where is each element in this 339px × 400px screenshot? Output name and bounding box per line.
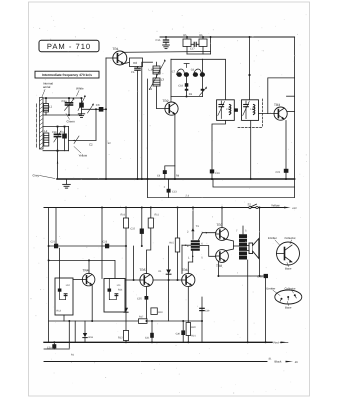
wire TR3 collector top stub	[287, 95, 295, 97]
svg-text:C18: C18	[178, 85, 183, 88]
wire TR4 collector	[88, 260, 90, 273]
svg-text:C21: C21	[51, 241, 56, 244]
svg-text:-9V: -9V	[294, 361, 298, 364]
svg-text:Base: Base	[285, 306, 292, 310]
output transformer T2	[236, 226, 248, 260]
diode D1	[158, 246, 171, 321]
wire TR1 emitter to R2	[124, 62, 130, 63]
wire TR3 emitter with capacitor C20	[276, 121, 289, 180]
IFT2 winding B	[242, 100, 259, 121]
switch S1 label Black arrow	[269, 357, 299, 364]
rail B1	[44, 341, 272, 343]
transistor TR8	[216, 250, 229, 268]
trimmer C4a	[78, 95, 86, 111]
svg-text:Yellow: Yellow	[271, 204, 280, 208]
capacitor C17	[190, 42, 199, 50]
wire box1 bottom	[63, 315, 65, 321]
svg-text:R11: R11	[155, 214, 160, 217]
wire emitter drop left	[74, 321, 76, 342]
junction between IFT2 windings	[235, 108, 238, 111]
svg-text:+9V: +9V	[292, 207, 297, 210]
svg-text:C2: C2	[89, 142, 93, 146]
svg-text:C25: C25	[137, 298, 142, 301]
svg-text:Base: Base	[285, 267, 292, 271]
wire TR3 bias from rail	[268, 78, 295, 114]
capacitor C18 centre tap	[178, 77, 188, 97]
svg-text:R19: R19	[158, 311, 163, 314]
electrolytic C22	[130, 208, 143, 247]
svg-text:C4: C4	[62, 131, 66, 134]
trimmer C4b	[62, 127, 67, 151]
rail B2	[44, 361, 267, 363]
resistor R15 on feedback line	[139, 316, 148, 324]
svg-text:Intermediate frequency 470 kc/: Intermediate frequency 470 kc/s	[42, 73, 92, 77]
svg-text:C30: C30	[176, 333, 181, 336]
svg-text:R20: R20	[191, 326, 196, 329]
svg-text:TR8: TR8	[216, 264, 222, 268]
wire AGC tap to bus	[141, 62, 143, 179]
svg-text:L10: L10	[66, 284, 71, 287]
wire AVC line down	[147, 79, 149, 198]
electrolytic C23	[103, 241, 110, 249]
transistor TR4	[82, 269, 95, 286]
transistor TR2	[163, 99, 179, 115]
transformer box 1	[55, 278, 73, 315]
wire rail drop	[210, 37, 212, 54]
svg-text:C29: C29	[205, 310, 210, 313]
resistor R12	[118, 331, 129, 341]
ferrite rod aerial	[37, 98, 44, 150]
label Green	[66, 114, 75, 124]
wire IFT2 to TR3 base	[259, 113, 275, 115]
svg-text:C6: C6	[131, 71, 135, 74]
wire T1 pin1 to TR6 collector	[188, 251, 193, 273]
svg-text:C19: C19	[215, 172, 220, 175]
capacitor C6	[131, 67, 140, 74]
svg-text:R12: R12	[118, 337, 123, 340]
svg-text:Collector: Collector	[285, 286, 296, 290]
wire oscillator to padder C2	[69, 109, 97, 146]
wire C20 stub	[44, 321, 69, 349]
wire aerial earth drop	[57, 151, 59, 179]
wire volume control line	[48, 208, 50, 343]
wire TR4 emitter	[91, 286, 93, 322]
svg-text:C31: C31	[145, 337, 150, 340]
variable capacitor C1b	[52, 127, 61, 151]
svg-text:R13: R13	[57, 310, 62, 313]
svg-text:R14: R14	[118, 289, 123, 292]
svg-text:Emitter: Emitter	[268, 236, 277, 240]
wire TR8 emitter	[218, 261, 265, 276]
wire IFT2A bottom to bus with capacitor C19	[210, 120, 226, 179]
svg-text:TR6: TR6	[182, 268, 188, 272]
svg-text:L11: L11	[117, 284, 121, 287]
ground symbol main	[63, 179, 71, 188]
driver transformer T1	[187, 208, 203, 260]
capacitor C20 bottom	[47, 342, 56, 349]
wire TR3 collector	[287, 111, 294, 113]
svg-text:TR5: TR5	[140, 268, 146, 272]
arrow +9V	[284, 207, 297, 210]
transistor TR1	[113, 47, 127, 65]
svg-text:C22: C22	[130, 228, 135, 231]
coil L2	[44, 129, 49, 146]
svg-text:2.4: 2.4	[186, 195, 190, 198]
electrolytic C21	[51, 241, 59, 249]
resistor R10 line	[121, 208, 129, 343]
wire output return	[201, 321, 203, 342]
svg-text:TR3: TR3	[274, 103, 280, 107]
IF frequency label box	[35, 71, 99, 78]
resistor R5	[183, 34, 191, 54]
label Yellow	[74, 147, 88, 158]
resistor R19	[151, 308, 163, 315]
resistor R16 line	[169, 208, 179, 281]
svg-text:C3: C3	[96, 103, 100, 107]
label internal aerial	[42, 82, 53, 97]
coil L1	[44, 98, 53, 115]
junction dots bottom section	[48, 207, 267, 344]
svg-text:TR2: TR2	[163, 99, 169, 103]
svg-text:+: +	[164, 185, 166, 189]
diode D2 bias	[124, 308, 128, 312]
wire IFT2B bottom to bus	[250, 120, 252, 179]
capacitor C9 bypass	[157, 166, 175, 179]
variable capacitor C1a	[62, 97, 75, 115]
top supply rail	[160, 36, 295, 38]
IFT1 tuning arrow	[200, 86, 208, 95]
wire tank to C3	[82, 108, 99, 110]
wire TR7 collector to rail	[221, 208, 223, 228]
wire L4 to TR2 base	[157, 86, 165, 109]
svg-text:R21: R21	[191, 335, 196, 338]
svg-text:TR1: TR1	[113, 47, 119, 51]
svg-text:R15: R15	[169, 242, 174, 245]
svg-text:Black: Black	[275, 359, 282, 363]
electrolytic C13	[164, 179, 178, 198]
IFT2 dashed core	[238, 99, 263, 128]
svg-text:C17: C17	[190, 48, 195, 51]
svg-text:L.30: L.30	[149, 69, 155, 72]
resistor R2	[130, 58, 143, 67]
ground below trimmer	[78, 107, 84, 117]
transistor TR7	[216, 223, 229, 240]
svg-text:C1b: C1b	[52, 131, 57, 134]
wire C21 to box1	[59, 248, 61, 278]
wire TR1 collector to rail	[124, 51, 211, 54]
trimmer arrow on wire	[88, 103, 95, 113]
wire box1 to TR4 base	[73, 279, 82, 281]
wire TR5 to TR6	[153, 279, 182, 281]
resistor R6	[199, 34, 207, 54]
wire long vertical C3 node to TR1 base and bus	[106, 58, 113, 179]
wire IFT1 to IFT2 primary	[203, 59, 226, 100]
svg-text:aerial: aerial	[43, 85, 51, 89]
IFT1 assembly	[171, 59, 205, 102]
svg-text:Yellow: Yellow	[79, 154, 88, 158]
capacitor C30	[176, 321, 185, 342]
oscillator tank right side	[68, 127, 70, 151]
wire T1 pin3 to TR7 base	[199, 232, 216, 240]
svg-text:L4: L4	[149, 87, 153, 91]
capacitor C31	[145, 321, 154, 342]
wire bias line	[101, 208, 103, 279]
wire rail to IFT2 secondary	[248, 37, 250, 100]
wire M1 branch to base	[133, 246, 135, 280]
diode D2	[83, 321, 94, 342]
svg-text:R2: R2	[133, 61, 137, 65]
svg-text:S2: S2	[248, 202, 252, 206]
svg-text:C20: C20	[276, 171, 281, 174]
wire rail to C21	[55, 208, 57, 244]
svg-text:L2: L2	[44, 129, 48, 133]
transistor pinout circle	[268, 236, 300, 271]
main earth bus top section	[57, 178, 295, 180]
electrolytic C28	[257, 274, 268, 279]
rail M1	[49, 245, 126, 247]
svg-text:R10: R10	[121, 214, 126, 217]
wire right riser	[294, 37, 296, 198]
svg-text:9V: 9V	[108, 142, 111, 145]
svg-text:Collector: Collector	[285, 236, 296, 240]
svg-text:C13: C13	[172, 190, 177, 193]
wire T1 pin4	[182, 245, 191, 274]
wire TR6 emitter to R20	[186, 287, 196, 343]
wire T1 pin6 to TR8 base	[200, 246, 216, 257]
wire T2 secondary down	[247, 260, 249, 342]
transformer box 2	[104, 279, 125, 313]
wire C6 to bus	[137, 70, 139, 179]
junction dots top section	[57, 36, 288, 180]
bus line 3 AVC	[148, 195, 295, 198]
capacitor C25	[137, 287, 148, 321]
wire upper tank bottom	[43, 114, 82, 116]
svg-text:L3: L3	[161, 78, 165, 82]
svg-text:PAM - 710: PAM - 710	[47, 42, 91, 51]
svg-text:C1a: C1a	[62, 99, 68, 103]
transistor TR3	[274, 103, 287, 120]
svg-text:C15: C15	[156, 39, 161, 42]
rail M2	[49, 260, 115, 278]
svg-text:R17: R17	[139, 316, 144, 319]
label White	[76, 87, 84, 97]
wire TR2 emitter down	[174, 114, 176, 179]
wire C28 down to rail B1	[265, 278, 267, 342]
svg-text:Red: Red	[274, 340, 280, 344]
capacitor C3	[96, 103, 106, 112]
capacitor C15 with ground	[156, 37, 170, 49]
supply rail +9V bottom section	[44, 207, 284, 209]
IFT2 winding A	[217, 100, 235, 121]
svg-text:Emitter: Emitter	[267, 286, 276, 290]
oscillator tank bottom wire	[43, 150, 69, 152]
svg-text:TR4: TR4	[83, 269, 89, 273]
title box PAM-710	[39, 40, 99, 51]
oscillator tank top wire	[43, 126, 69, 128]
capacitor C29	[200, 297, 210, 321]
wire box2 to TR5 base	[125, 279, 140, 281]
wire R2 to L3	[143, 61, 153, 63]
svg-text:T1: T1	[196, 224, 200, 228]
feedback line	[49, 320, 202, 322]
oscillator coil L3 L4	[149, 59, 166, 91]
wire rail to C28	[259, 208, 261, 277]
svg-text:R18: R18	[89, 336, 94, 339]
switch S2	[248, 202, 259, 208]
wire TR7 emitter TR8 collector to T2	[226, 239, 239, 251]
svg-text:C23: C23	[103, 241, 108, 244]
wire node R5 R6	[187, 53, 211, 55]
svg-text:White: White	[76, 87, 84, 91]
transistor pinout oval base view	[267, 286, 302, 309]
transistor TR5	[140, 268, 154, 286]
wire upper tank top	[43, 97, 82, 99]
svg-text:L1: L1	[49, 105, 53, 109]
svg-text:Grey: Grey	[33, 174, 40, 178]
resistor R3 ticks	[185, 89, 204, 96]
svg-text:Green: Green	[67, 119, 76, 123]
speaker	[247, 239, 259, 259]
label Red arrow	[274, 340, 289, 344]
junction squares tank	[45, 97, 82, 151]
bus line 2	[213, 179, 295, 187]
resistor R11 line	[147, 208, 160, 274]
label Grey	[33, 174, 56, 179]
transistor TR6	[182, 268, 195, 286]
